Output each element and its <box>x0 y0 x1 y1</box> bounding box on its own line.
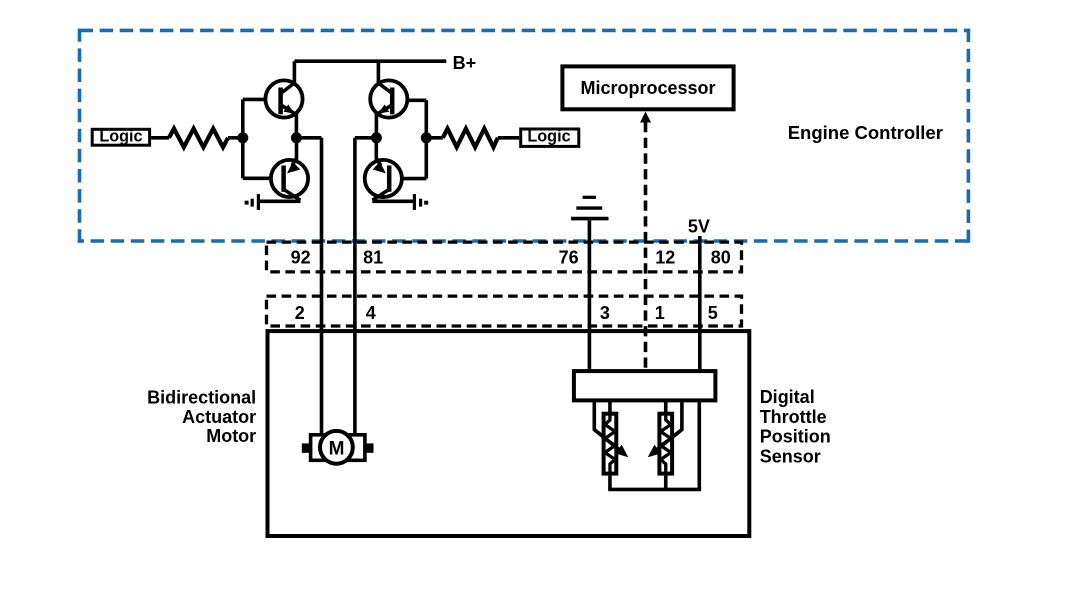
wire left output node to motor drop <box>296 136 321 140</box>
wiper arrow right <box>656 430 682 451</box>
potentiometer element left <box>605 414 615 474</box>
svg-text:2: 2 <box>295 303 305 323</box>
wire base to Q2 <box>243 177 284 181</box>
svg-text:4: 4 <box>366 303 376 323</box>
potentiometer right lead top <box>664 400 668 414</box>
svg-text:1: 1 <box>655 303 665 323</box>
svg-text:3: 3 <box>600 303 610 323</box>
wiper lead left <box>594 402 620 450</box>
resistor R2 <box>443 129 498 148</box>
motor M1 <box>302 431 374 464</box>
svg-text:Position: Position <box>760 427 831 447</box>
engine controller dashed boundary box <box>78 29 971 243</box>
wire base to Q1 <box>243 98 281 102</box>
pot bottom lead left <box>608 476 612 490</box>
svg-text:Motor: Motor <box>206 426 256 446</box>
connector row 1 (dashed) <box>267 242 742 272</box>
potentiometer body left <box>604 414 617 474</box>
svg-text:Logic: Logic <box>527 128 570 146</box>
pot bottom lead right <box>664 476 668 490</box>
left base vertical wire <box>241 99 245 178</box>
svg-text:Sensor: Sensor <box>760 446 821 466</box>
Logic box (right) <box>521 129 579 146</box>
arrowhead into microprocessor <box>640 112 651 123</box>
node right base <box>421 132 432 143</box>
svg-text:Actuator: Actuator <box>182 407 256 427</box>
svg-text:12: 12 <box>655 248 675 268</box>
node left base <box>237 132 248 143</box>
wire ground to sensor (pin 76 / 3) <box>588 220 592 371</box>
transistor Q2 (PNP bottom-left) <box>260 138 308 202</box>
wiper arrow left <box>594 430 620 451</box>
potentiometer left lead top <box>608 400 612 414</box>
resistor R1 <box>169 129 228 148</box>
connector row 2 (dashed) <box>267 296 742 326</box>
wire right output node to motor drop <box>355 136 377 140</box>
sensor right-side vertical (5V through) <box>697 402 701 489</box>
svg-text:Logic: Logic <box>99 128 142 146</box>
wire right base to resistor <box>426 136 443 140</box>
svg-text:B+: B+ <box>453 53 477 73</box>
node right output <box>371 132 382 143</box>
dashed signal wire to microprocessor <box>644 122 648 369</box>
potentiometer body right <box>659 414 672 474</box>
svg-text:5: 5 <box>708 303 718 323</box>
svg-text:Bidirectional: Bidirectional <box>147 387 256 407</box>
wire 5V to sensor (pin 80 / 5) <box>698 236 702 371</box>
svg-text:Microprocessor: Microprocessor <box>580 78 715 98</box>
wire base to Q4 <box>389 177 426 181</box>
throttle position sensor box <box>574 371 716 400</box>
svg-text:5V: 5V <box>688 217 710 237</box>
node left output <box>291 132 302 143</box>
ground (right, mirrored) <box>414 194 428 210</box>
svg-text:92: 92 <box>291 248 311 268</box>
wiper lead right <box>656 402 682 450</box>
actuator assembly solid box <box>268 331 750 536</box>
svg-text:80: 80 <box>711 248 731 268</box>
wire resistor to logic (right) <box>498 136 519 140</box>
ground (earth, above pin 76) <box>571 197 608 218</box>
svg-text:81: 81 <box>363 248 383 268</box>
wire base to Q3 <box>392 99 426 103</box>
svg-text:M: M <box>329 438 345 459</box>
svg-text:Digital: Digital <box>760 387 815 407</box>
transistor Q1 (NPN top-left) <box>265 61 302 138</box>
right base vertical wire <box>424 100 428 178</box>
Logic box (left) <box>92 129 149 145</box>
svg-text:Engine Controller: Engine Controller <box>788 122 943 143</box>
sensor bottom rail <box>608 488 701 492</box>
svg-text:76: 76 <box>559 248 579 268</box>
svg-text:Throttle: Throttle <box>760 407 827 427</box>
wire logic to resistor <box>151 136 169 140</box>
potentiometer element right <box>661 414 671 474</box>
transistor Q3 (NPN top-right, mirrored) <box>370 61 407 138</box>
wire resistor to base node <box>228 136 243 140</box>
Microprocessor box U1 <box>562 66 733 109</box>
transistor Q4 (PNP bottom-right, mirrored) <box>365 138 413 202</box>
wire motor drop right (pin 81 / 4) <box>353 138 357 441</box>
wire motor drop left (pin 92 / 2) <box>320 138 324 441</box>
B+ rail <box>294 59 446 63</box>
ground (left) <box>245 194 259 210</box>
